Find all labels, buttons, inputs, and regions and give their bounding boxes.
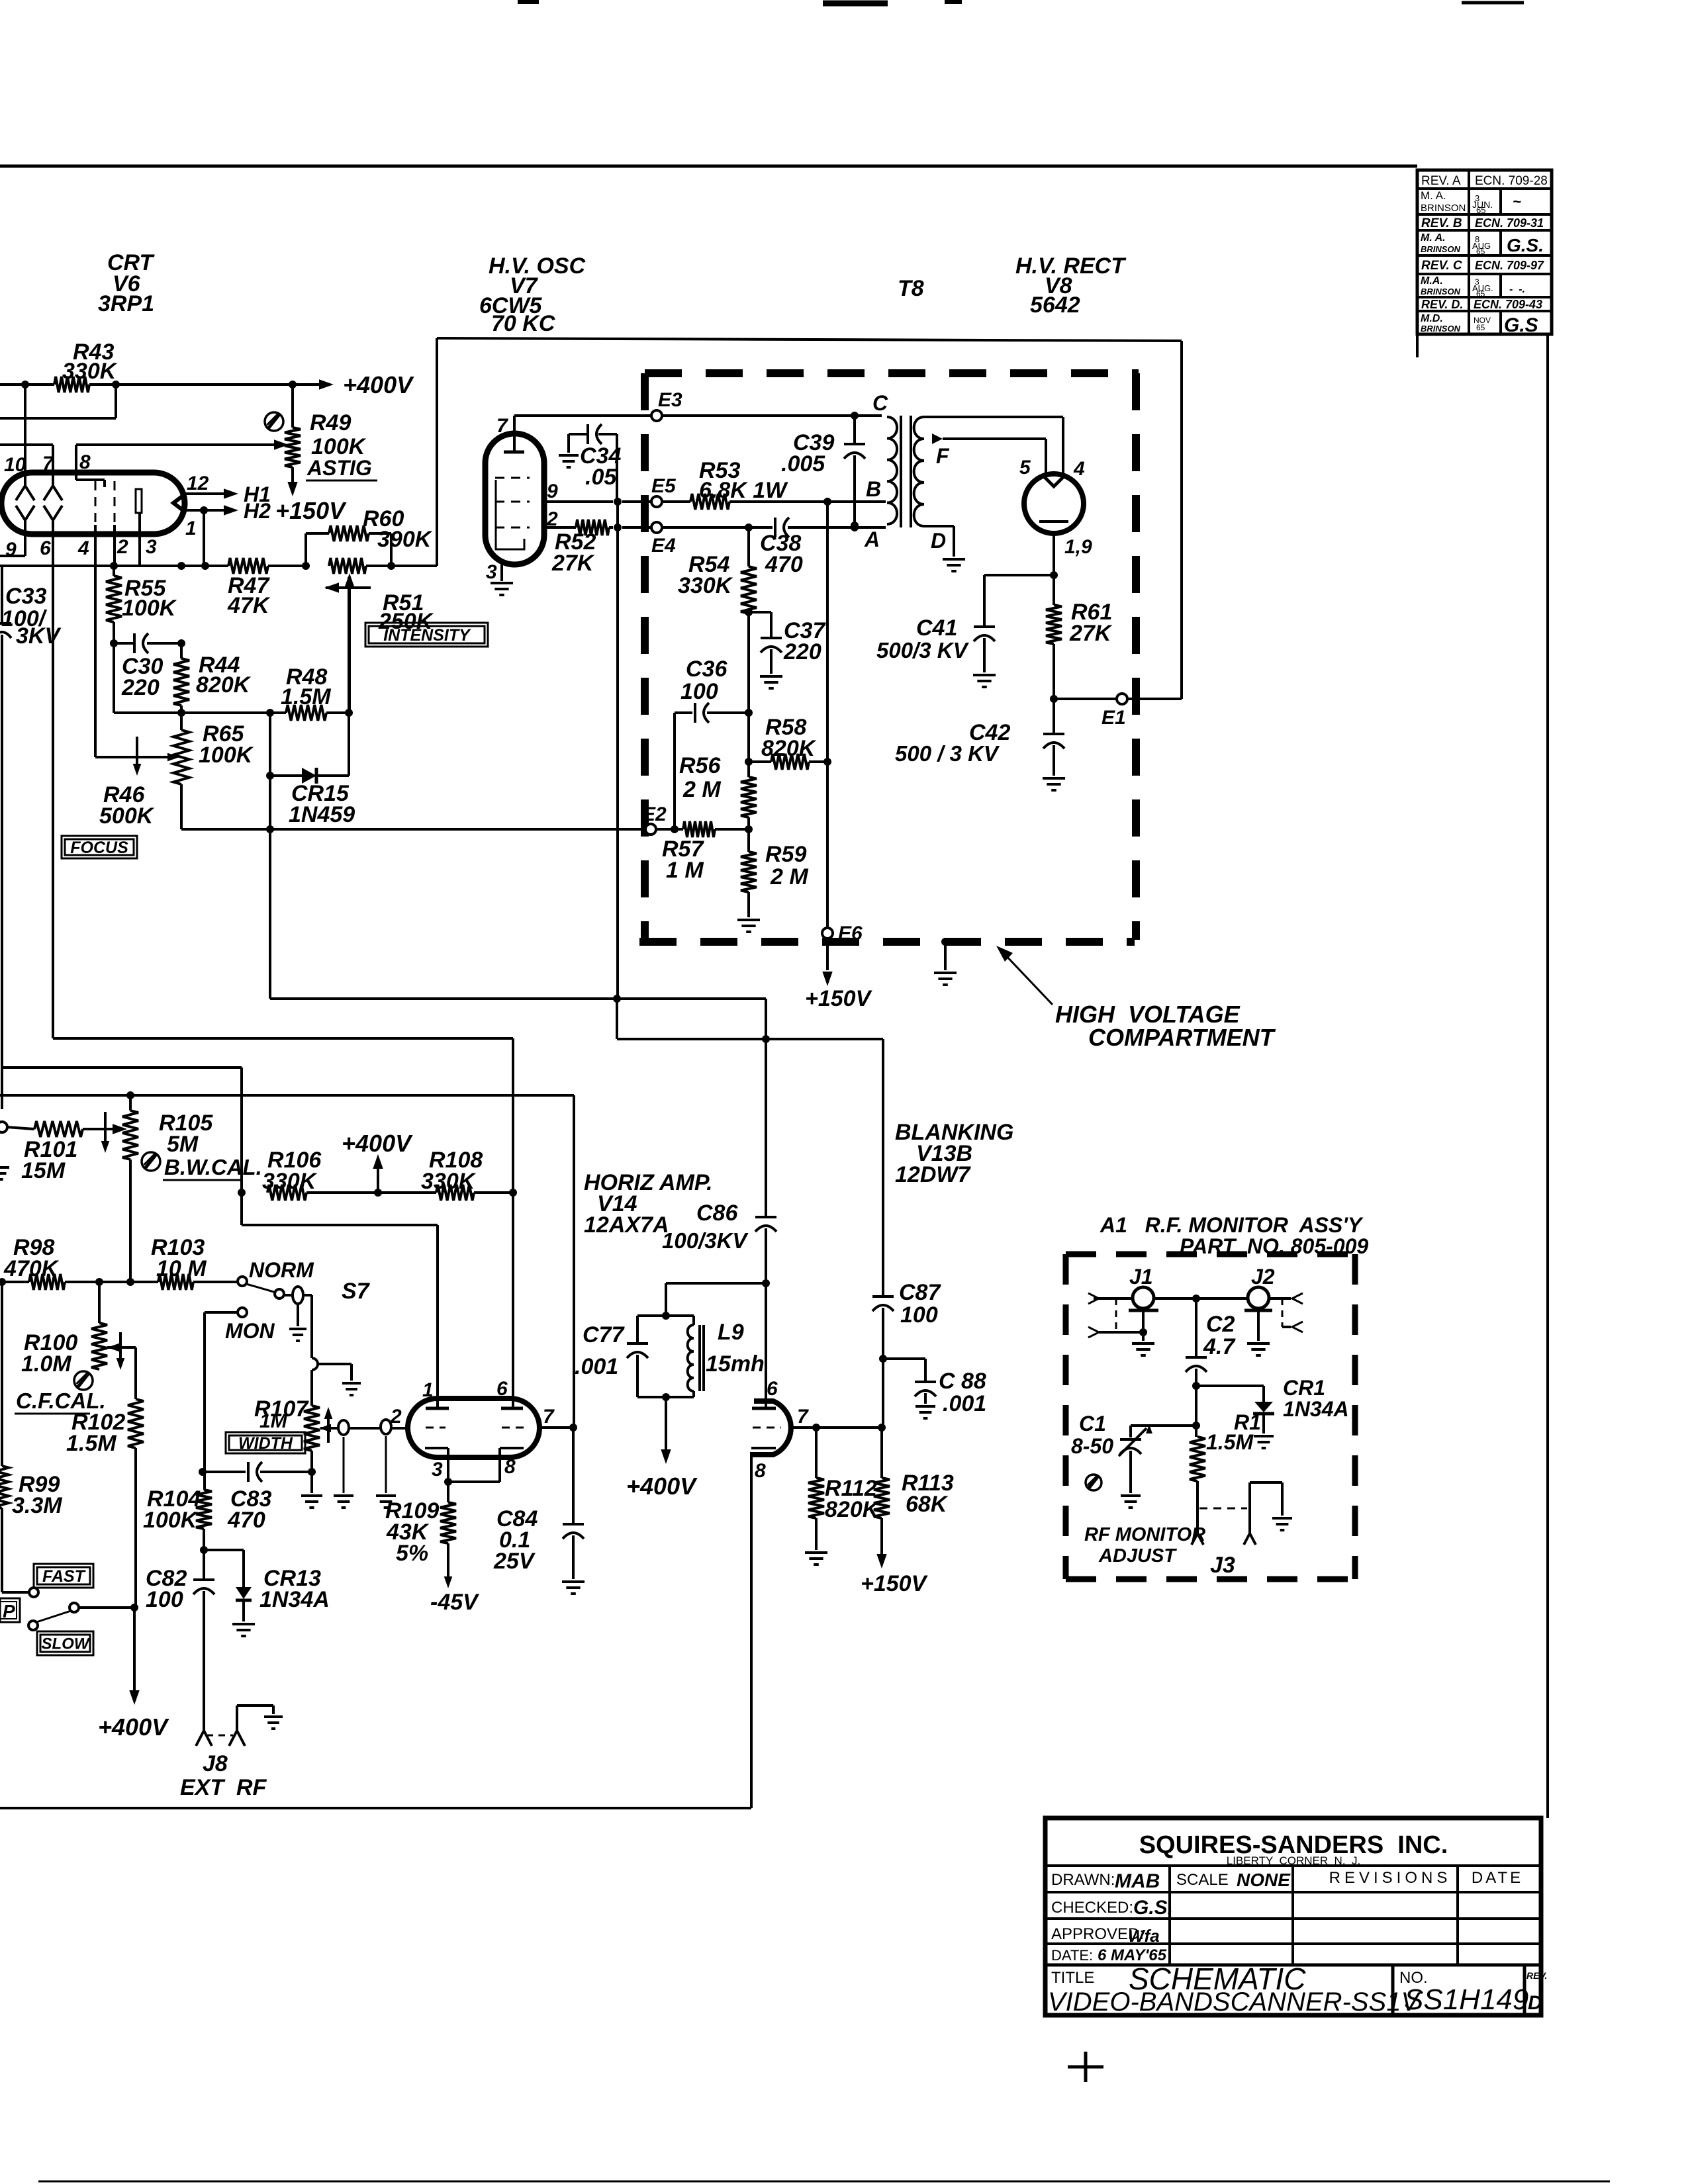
svg-text:100K: 100K [143,1508,199,1533]
terminal MON [205,1308,275,1343]
wire R98 row [0,1278,238,1286]
resistor R56 [679,612,757,833]
svg-text:DATE:: DATE: [1051,1947,1093,1964]
ground C1 [1121,1496,1141,1508]
ground V7 pin3 [491,583,513,595]
wire pin1 down [203,510,205,566]
resistor R106 [262,1148,382,1201]
svg-text:SCALE: SCALE [1176,1871,1229,1889]
resistor R112 [808,1428,880,1550]
svg-text:R56: R56 [679,753,721,778]
svg-text:ASTIG: ASTIG [306,456,372,480]
wire E3 row [514,412,882,420]
svg-text:REV.: REV. [1526,1970,1547,1981]
svg-text:1N34A: 1N34A [1283,1397,1349,1421]
connector J2 [1244,1265,1275,1310]
high voltage compartment box [639,373,1139,942]
svg-text:M.D.: M.D. [1421,313,1443,324]
ground J8 [264,1717,283,1729]
svg-text:3RP1: 3RP1 [98,291,154,316]
svg-text:68K: 68K [906,1492,949,1517]
ground C84 [562,1582,585,1594]
svg-text:7: 7 [543,1406,555,1428]
svg-text:27K: 27K [551,551,595,576]
svg-text:1.5M: 1.5M [281,684,331,709]
ground J3 pin2 [1272,1518,1292,1530]
feedthrough shields [338,1420,391,1493]
svg-text:BRINSON: BRINSON [1421,203,1466,214]
svg-text:BRINSON: BRINSON [1421,287,1461,296]
V7 plate [504,433,524,452]
arrow +150V E6 [805,938,873,1011]
svg-text:ECN. 709-28: ECN. 709-28 [1475,174,1548,188]
svg-text:+150V: +150V [805,986,873,1011]
svg-text:.005: .005 [781,451,825,477]
resistor R101 [7,1121,127,1183]
V7 pin 3 ground lead [486,561,502,583]
wire R106 riser [238,1095,246,1197]
label J3 [1210,1553,1235,1578]
V13B grid dash [753,1427,781,1429]
svg-text:8: 8 [504,1456,516,1478]
svg-text:G.S.: G.S. [1133,1897,1173,1919]
label +150V (astig) [275,497,347,524]
svg-text:E3: E3 [658,389,682,411]
switch FAST contact [2,1588,38,1597]
potentiometer R51 [324,558,434,713]
svg-text:M.A.: M.A. [1421,275,1443,287]
svg-text:LIBERTY CORNER N. J.: LIBERTY CORNER N. J. [1227,1854,1360,1867]
ground R112 [805,1553,827,1565]
svg-text:C36: C36 [686,657,727,682]
CRT screen notch [173,494,185,512]
resistor R58 [745,715,831,770]
svg-text:PART NO. 805-009: PART NO. 805-009 [1180,1234,1368,1258]
wire CRT pin8 to R49 wiper [76,439,289,480]
V7 envelope [485,433,544,565]
label HORIZ AMP V14 12AX7A [584,1170,713,1238]
svg-text:100: 100 [146,1587,183,1612]
svg-text:B.W.CAL.: B.W.CAL. [164,1155,262,1179]
wire C41 branch [984,575,1054,626]
CRT anode electrode [136,489,142,513]
svg-text:65: 65 [1476,247,1485,256]
svg-text:BRINSON: BRINSON [1421,324,1461,334]
screw adjust C1 [1086,1475,1102,1490]
wire sweep 1613 [2,1068,242,1095]
svg-text:390K: 390K [377,527,433,552]
svg-text:C 88: C 88 [939,1369,986,1394]
svg-text:C: C [872,391,888,415]
connector J3 pin2 [1244,1533,1256,1545]
svg-text:E6: E6 [838,923,863,944]
V8 plate notch [1043,476,1064,486]
svg-text:C41: C41 [916,615,957,641]
svg-text:+400V: +400V [98,1713,169,1741]
arrow R100 wiper [117,1332,125,1370]
resistor R47 [227,558,271,618]
svg-text:REV. C: REV. C [1421,259,1462,273]
wire CRT grid loop [0,385,116,418]
svg-text:COMPARTMENT: COMPARTMENT [1088,1024,1276,1051]
svg-text:220: 220 [121,675,160,700]
svg-text:TITLE: TITLE [1051,1969,1094,1987]
wire top rail to E1 [437,338,1182,341]
svg-text:6: 6 [496,1378,508,1400]
ground C37 [760,676,782,688]
tank bottom wire [637,1393,694,1401]
ground hop [342,1383,361,1395]
V13B plate [752,1407,776,1410]
svg-text:6: 6 [767,1378,778,1400]
capacitor C38 [760,518,803,577]
svg-text:1,9: 1,9 [1064,536,1092,558]
wire E4 row [544,523,886,531]
wire pin12 H1 [185,473,271,506]
wire V13B pin8 drop [750,1455,753,1808]
svg-text:5: 5 [1019,457,1031,478]
svg-text:R49: R49 [310,410,351,435]
transformer T8 secondary [914,417,924,526]
V13B cathode bar [751,1447,776,1449]
ground S7 pole [289,1304,306,1341]
transformer T8 primary [887,417,897,524]
svg-text:2: 2 [390,1406,402,1428]
capacitor C30 [114,633,185,700]
CRT pin 2 lead [113,525,116,566]
ground C42 [1043,778,1065,790]
ground shield 1 [334,1496,353,1508]
svg-text:D: D [1528,1992,1542,2014]
potentiometer R107 [254,1396,408,1451]
svg-text:4.7: 4.7 [1203,1334,1236,1359]
diode CR15 [266,768,355,827]
svg-text:C87: C87 [899,1280,941,1305]
svg-text:.001: .001 [575,1354,618,1379]
V14 cathode tie [444,1448,500,1486]
svg-text:E5: E5 [651,475,677,497]
svg-text:1.0M: 1.0M [21,1351,71,1377]
svg-text:CR1: CR1 [1283,1376,1325,1400]
wire J1 J2 row [1094,1295,1291,1302]
wire C87 riser [882,1039,884,1296]
svg-text:65: 65 [1476,205,1485,215]
terminal E5 [651,475,677,507]
V8 cathode lead [1050,533,1058,579]
potentiometer R65/R46 [95,713,254,829]
svg-text:12DW7: 12DW7 [895,1162,971,1187]
svg-text:2 M: 2 M [770,864,808,889]
tank top wire [637,1316,694,1342]
capacitor C88 [883,1359,986,1416]
svg-text:470: 470 [227,1508,265,1533]
arrow +400V tank [626,1397,698,1500]
svg-text:15M: 15M [21,1158,66,1183]
svg-text:J2: J2 [1251,1265,1275,1289]
connector pin right bottom [1292,1322,1303,1332]
resistor R98 [3,1235,65,1290]
label HIGH VOLTAGE COMPARTMENT [1055,1001,1276,1051]
svg-text:1M: 1M [259,1410,288,1432]
connector pin left top [1088,1293,1099,1304]
wire J1 ground [1142,1310,1145,1341]
svg-text:ADJUST: ADJUST [1098,1545,1177,1567]
resistor R103 [151,1235,207,1290]
resistor R57 [655,821,747,883]
label -45V [430,1590,480,1615]
svg-text:C86: C86 [696,1201,738,1226]
svg-text:470: 470 [765,552,803,577]
svg-text:P: P [3,1601,15,1621]
CRT pin 7 lead [52,445,54,486]
CRT pin 4 lead [94,525,97,757]
wire V13B pin6 feed [765,1283,767,1408]
svg-text:REV. B: REV. B [1421,216,1462,230]
svg-text:3: 3 [146,536,157,558]
wire MON drop [203,1312,206,1488]
T8 terminal A [864,527,880,551]
wire grid row [0,562,437,570]
RF monitor assy box [1066,1254,1355,1579]
wire R48 row [114,643,353,717]
resistor R1 [1190,1410,1261,1534]
ground C34 [559,455,579,467]
svg-text:G.S: G.S [1504,314,1538,336]
svg-text:DRAWN:: DRAWN: [1051,1871,1115,1889]
connector hop [312,1358,352,1381]
svg-text:10 M: 10 M [156,1256,207,1281]
resistor R55 [106,566,177,647]
page bottom edge line [38,2181,1610,2183]
CRT grid dashes [95,481,115,525]
capacitor C87 [872,1280,941,1363]
svg-text:47K: 47K [227,593,271,618]
svg-text:6.8K 1W: 6.8K 1W [699,478,788,503]
label +150V R113 [861,1571,929,1596]
CRT V6 envelope [1,473,185,534]
capacitor C86 [662,1201,776,1287]
CRT pin numbers top [4,451,91,476]
svg-text:G.S.: G.S. [1507,235,1544,255]
ground shield 2 [376,1496,396,1508]
connector J1 [1129,1265,1158,1310]
svg-text:R59: R59 [765,842,806,867]
wire hop to R107 [310,1370,313,1406]
resistor R99 [0,1282,62,1592]
resistor R61 [1046,575,1113,703]
svg-text:DATE: DATE [1472,1869,1523,1887]
svg-text:7: 7 [797,1406,809,1428]
svg-text:65: 65 [1476,289,1485,298]
svg-text:12: 12 [187,473,209,494]
FAST box [34,1564,93,1588]
resistor R52 [551,520,609,576]
CRT pin 9 lead [0,520,25,556]
ground CR1 [1254,1436,1274,1448]
connector pin left bottom [1088,1327,1099,1338]
svg-text:L9: L9 [718,1320,744,1345]
svg-text:9: 9 [547,480,558,502]
svg-text:+150V: +150V [861,1571,929,1596]
svg-text:EXT RF: EXT RF [180,1775,267,1800]
wire V7 plate rail riser [436,338,438,566]
svg-text:REV. A: REV. A [1421,174,1461,188]
wire CRT pin6 to V14 [53,1037,513,1040]
label RF MONITOR ADJUST [1084,1524,1205,1567]
terminal E3 [651,389,682,421]
capacitor C2 [1186,1298,1236,1390]
CRT pin numbers bottom [5,536,157,561]
dashed link left pins [1115,1298,1117,1332]
ground J2 [1247,1343,1270,1355]
V13B envelope [750,1401,791,1455]
svg-text:330K: 330K [62,359,118,384]
V7 cathode [496,480,524,549]
label H.V. RECT V8 5642 [1015,253,1127,318]
capacitor C36 [671,657,753,833]
wire +400V rail [0,381,326,388]
CRT pin 10 lead [24,385,26,486]
svg-text:330K: 330K [678,573,733,598]
FOCUS box [62,836,137,858]
svg-text:INTENSITY: INTENSITY [383,626,471,645]
capacitor C37 [749,612,826,674]
svg-text:10: 10 [4,454,26,476]
wire E1 row [1054,341,1182,699]
svg-text:+400V: +400V [626,1473,698,1500]
wire left pin2 [1099,1328,1147,1336]
resistor R54 [678,527,757,616]
screw adjust R49 [265,412,283,431]
V7 pin 7 lead [496,415,514,437]
potentiometer R49 [285,385,377,496]
svg-text:C1: C1 [1079,1412,1106,1435]
V14 plate 1 [426,1407,449,1410]
T8 terminal D [923,526,954,557]
svg-text:MAB: MAB [1115,1870,1160,1892]
svg-text:1.5M: 1.5M [66,1431,117,1456]
svg-text:-45V: -45V [430,1590,480,1615]
dashed link J3 [1199,1508,1247,1510]
ground R59 [737,920,760,932]
svg-text:E1: E1 [1102,707,1126,729]
resistor R108 [378,1148,517,1201]
svg-text:820K: 820K [196,672,252,698]
ground J1 [1132,1343,1154,1355]
svg-text:REVISIONS: REVISIONS [1329,1869,1452,1887]
potentiometer R100 [21,1282,136,1399]
resistor R48 [281,664,331,721]
V14 envelope [408,1398,539,1457]
svg-text:J1: J1 [1129,1265,1153,1289]
T8 secondary top [923,417,1063,476]
svg-text:3: 3 [486,561,497,583]
svg-text:820K: 820K [761,736,817,761]
svg-text:5%: 5% [396,1541,428,1566]
svg-text:FAST: FAST [42,1567,87,1586]
svg-text:65: 65 [1476,323,1485,332]
capacitor C39 [781,416,865,529]
label PART NO 805-009 [1180,1234,1368,1258]
wire pin1 H2 [185,499,271,539]
svg-text:3: 3 [432,1459,443,1480]
wire CR15 node down [269,713,271,999]
V8 pin labels [1019,457,1092,558]
ground left edge [0,1167,9,1179]
svg-text:NORM: NORM [249,1258,314,1282]
T8 terminal C [872,391,888,415]
switch S7 [238,1258,371,1304]
wire +400V drop [98,1608,169,1741]
svg-text:D: D [931,529,946,553]
wire blanking C86 riser [765,999,767,1216]
svg-text:A1 R.F. MONITOR ASS'Y: A1 R.F. MONITOR ASS'Y [1100,1213,1364,1237]
svg-text:100/3KV: 100/3KV [662,1228,749,1253]
svg-text:1: 1 [185,518,197,539]
svg-text:VIDEO-BANDSCANNER-SS1V: VIDEO-BANDSCANNER-SS1V [1048,1987,1421,2017]
ground T8 D [943,559,965,571]
CRT deflection plates pair 2 [44,486,62,520]
inductor L9 [688,1316,765,1397]
svg-text:7: 7 [496,415,508,437]
wire E5 row [544,498,831,506]
svg-text:.001: .001 [943,1391,986,1416]
wire V14 pin7 [539,1424,577,1432]
svg-text:100: 100 [680,679,718,704]
CRT pin8 internal electrode [76,480,105,487]
svg-text:T8: T8 [898,276,924,301]
svg-text:15mh: 15mh [706,1351,765,1377]
dashed link right pins [1282,1298,1284,1327]
svg-text:E2: E2 [642,803,667,825]
svg-text:3KV: 3KV [16,623,62,649]
V14 plate 2 [501,1407,523,1410]
svg-text:H2: H2 [244,499,271,523]
wire bottom rail [0,1807,751,1809]
ground C88 [915,1406,935,1418]
leader arrow HIGH VOLTAGE [996,946,1053,1005]
label BLANKING V13B 12DW7 [895,1120,1013,1187]
terminal E2 [642,803,667,835]
CRT deflection plates pair 1 [16,486,34,520]
capacitor C1 variable [1071,1386,1200,1493]
svg-text:S7: S7 [342,1279,371,1304]
capacitor C33 line [0,566,62,1109]
svg-text:SLOW: SLOW [42,1635,91,1653]
svg-text:MON: MON [225,1319,275,1343]
V7 pin labels [546,480,558,530]
svg-text:100: 100 [900,1302,938,1328]
svg-text:WIDTH: WIDTH [238,1434,293,1453]
capacitor C41 [876,615,995,672]
capacitor C84 [493,1428,584,1579]
svg-text:500K: 500K [99,803,155,829]
label A1 R.F. MONITOR ASSY [1100,1213,1364,1237]
V8 envelope [1024,474,1084,533]
svg-text:8: 8 [79,451,91,473]
svg-text:330K: 330K [262,1169,318,1194]
svg-text:7: 7 [42,453,54,475]
svg-text:+400V: +400V [343,371,414,398]
svg-text:25V: 25V [493,1549,536,1574]
revision table [1417,170,1552,357]
V13B pin numbers [755,1378,809,1482]
label H.V. OSC V7 6CW5 70KC [479,253,586,336]
svg-text:ECN. 709-43: ECN. 709-43 [1474,298,1542,311]
wire J2 ground [1257,1310,1260,1341]
screw adjust R105 [142,1152,160,1171]
arrow R101 wiper [101,1112,110,1153]
